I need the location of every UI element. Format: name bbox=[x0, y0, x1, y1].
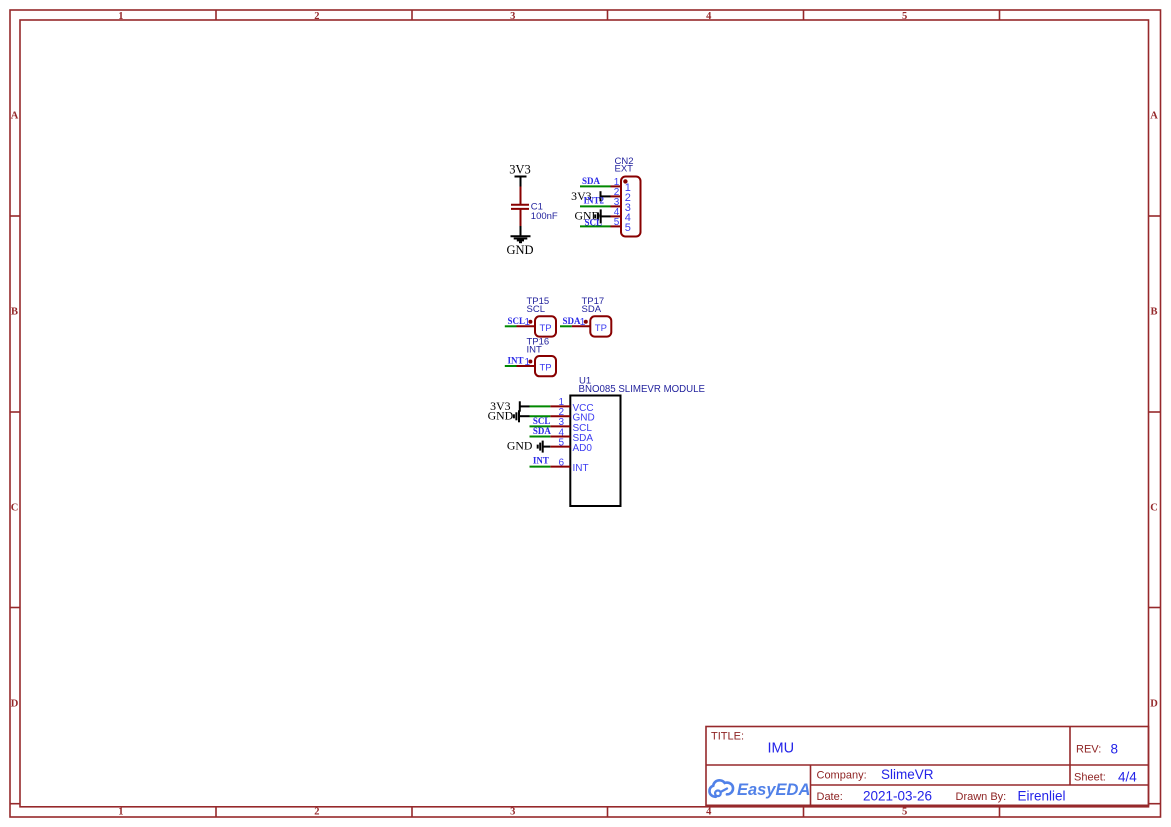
wire net INT (U1 pin6) bbox=[530, 466, 551, 468]
svg-text:GND: GND bbox=[507, 438, 533, 452]
svg-text:SDA: SDA bbox=[582, 304, 602, 315]
CN2 pin 3 bbox=[611, 205, 622, 207]
svg-text:2021-03-26: 2021-03-26 bbox=[863, 789, 932, 804]
svg-text:GND: GND bbox=[488, 408, 514, 422]
svg-text:C: C bbox=[11, 503, 19, 514]
capacitor C1 bbox=[506, 163, 557, 258]
svg-text:C: C bbox=[1150, 503, 1158, 514]
svg-text:D: D bbox=[1150, 698, 1158, 709]
svg-text:GND: GND bbox=[506, 243, 533, 257]
CN2 pin 2 bbox=[611, 195, 622, 197]
svg-text:INT: INT bbox=[527, 345, 543, 356]
svg-text:TP: TP bbox=[540, 363, 552, 374]
svg-text:B: B bbox=[11, 307, 18, 318]
svg-text:A: A bbox=[11, 111, 19, 122]
svg-text:Date:: Date: bbox=[817, 791, 843, 803]
wire net SDA (U1 pin4) bbox=[530, 436, 551, 438]
svg-text:REV:: REV: bbox=[1076, 744, 1101, 756]
U1 pin 3 SCL bbox=[550, 425, 570, 427]
U1 pin 2 GND bbox=[550, 415, 570, 417]
U1 pin 1 VCC bbox=[550, 405, 570, 407]
CN2 pin 4 bbox=[611, 215, 622, 217]
connector CN2 bbox=[571, 156, 640, 237]
U1 pin 6 INT bbox=[550, 466, 570, 468]
wire (U1 pin2) bbox=[530, 415, 551, 417]
U1 pin 5 AD0 bbox=[550, 446, 570, 448]
CN2 pin 1 bbox=[611, 185, 622, 187]
svg-text:AD0: AD0 bbox=[573, 443, 593, 454]
svg-text:A: A bbox=[1150, 111, 1158, 122]
svg-text:5: 5 bbox=[558, 437, 564, 448]
TP15 pin wire + net SCL bbox=[505, 325, 517, 327]
svg-text:3V3: 3V3 bbox=[509, 163, 531, 177]
svg-text:EXT: EXT bbox=[615, 164, 634, 175]
svg-text:100nF: 100nF bbox=[531, 211, 558, 222]
wire net SCL (U1 pin3) bbox=[530, 425, 551, 427]
TP17 pin wire + net SDA bbox=[560, 325, 572, 327]
U1 pin 4 SDA bbox=[550, 436, 570, 438]
svg-text:SDA: SDA bbox=[533, 426, 552, 436]
test point TP17 bbox=[560, 296, 611, 337]
svg-text:3: 3 bbox=[510, 11, 515, 22]
svg-text:SCL: SCL bbox=[585, 218, 603, 228]
svg-text:SCL: SCL bbox=[527, 304, 545, 315]
svg-text:TP: TP bbox=[595, 323, 607, 334]
ground GND (C1 bottom) bbox=[520, 226, 522, 236]
svg-text:6: 6 bbox=[558, 457, 564, 468]
svg-text:4/4: 4/4 bbox=[1118, 770, 1137, 785]
svg-text:Eirenliel: Eirenliel bbox=[1018, 789, 1066, 804]
svg-text:1: 1 bbox=[118, 11, 123, 22]
svg-text:5: 5 bbox=[902, 11, 907, 22]
svg-text:2: 2 bbox=[314, 11, 319, 22]
CN2 pin 5 bbox=[611, 225, 622, 227]
svg-text:3: 3 bbox=[510, 807, 515, 818]
svg-text:INT: INT bbox=[508, 356, 524, 366]
svg-text:INT: INT bbox=[573, 463, 589, 474]
svg-text:8: 8 bbox=[1111, 742, 1119, 757]
title block bbox=[706, 727, 1149, 806]
svg-text:INT2: INT2 bbox=[584, 196, 605, 206]
svg-text:B: B bbox=[1150, 307, 1157, 318]
wire net SDA (CN2 pin1) bbox=[580, 185, 611, 187]
svg-text:4: 4 bbox=[706, 807, 712, 818]
svg-text:SDA: SDA bbox=[563, 316, 582, 326]
svg-text:Drawn By:: Drawn By: bbox=[956, 791, 1007, 803]
svg-text:5: 5 bbox=[902, 807, 907, 818]
svg-text:5: 5 bbox=[625, 222, 631, 234]
TP16 pin wire + net INT bbox=[505, 365, 517, 367]
EasyEDA logo bbox=[709, 780, 810, 798]
svg-text:2: 2 bbox=[314, 807, 319, 818]
svg-text:D: D bbox=[11, 698, 19, 709]
pin 1 marker dot bbox=[623, 179, 627, 183]
svg-text:Sheet:: Sheet: bbox=[1074, 772, 1106, 784]
svg-text:TP: TP bbox=[540, 323, 552, 334]
wire net INT2 (CN2 pin3) bbox=[580, 205, 611, 207]
svg-text:SlimeVR: SlimeVR bbox=[881, 767, 934, 782]
capacitor C1 body bbox=[520, 187, 522, 205]
svg-text:Company:: Company: bbox=[817, 770, 867, 782]
svg-text:INT: INT bbox=[533, 456, 549, 466]
svg-text:SDA: SDA bbox=[582, 176, 601, 186]
test point TP16 bbox=[505, 337, 556, 377]
svg-text:TITLE:: TITLE: bbox=[711, 731, 744, 743]
svg-text:IMU: IMU bbox=[768, 741, 795, 757]
svg-text:4: 4 bbox=[706, 11, 712, 22]
svg-text:SCL: SCL bbox=[508, 316, 526, 326]
svg-text:BNO085 SLIMEVR MODULE: BNO085 SLIMEVR MODULE bbox=[579, 384, 706, 395]
wire (U1 pin1) bbox=[530, 405, 551, 407]
svg-text:5: 5 bbox=[614, 217, 620, 228]
wire net SCL (CN2 pin5) bbox=[580, 225, 611, 227]
svg-text:SCL: SCL bbox=[533, 416, 551, 426]
test point TP15 bbox=[505, 296, 556, 337]
svg-text:1: 1 bbox=[118, 807, 123, 818]
IC U1 BNO085 bbox=[488, 376, 706, 507]
svg-text:EasyEDA: EasyEDA bbox=[737, 781, 810, 799]
